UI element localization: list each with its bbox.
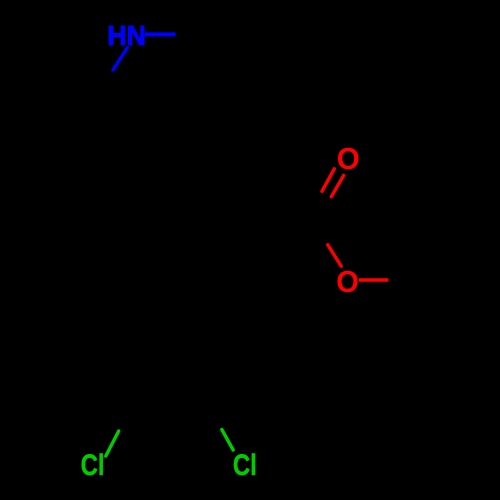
svg-text:O: O [337,141,360,176]
svg-text:Cl: Cl [233,450,257,482]
svg-text:O: O [336,264,359,299]
svg-text:Cl: Cl [81,450,105,482]
